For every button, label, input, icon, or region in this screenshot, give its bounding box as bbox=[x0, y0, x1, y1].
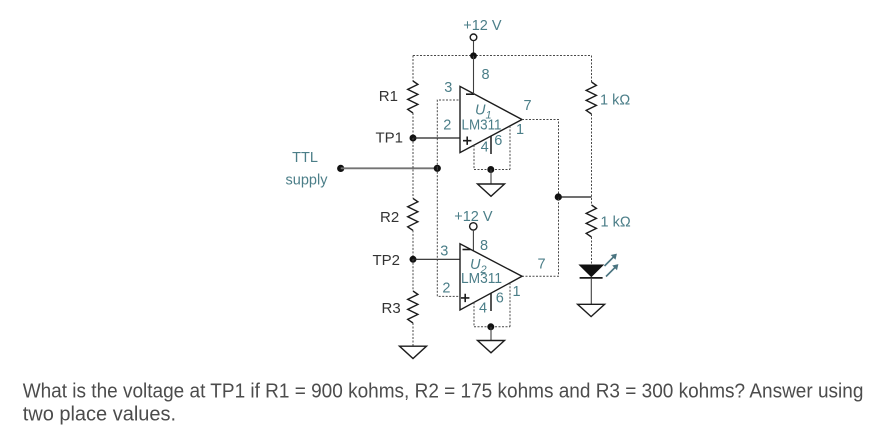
wire: R1 to TP1 bbox=[412, 113, 414, 138]
wire: +12V top rail bbox=[413, 55, 592, 57]
svg-text:R1: R1 bbox=[379, 88, 398, 105]
+12 V terminal circle (U1 rail) bbox=[470, 34, 477, 41]
wire: rail down-left to R1 bbox=[412, 56, 414, 82]
wire: riser from TTL node up to U1 pin 3 bbox=[437, 100, 460, 168]
wire: R3 to ground bbox=[412, 323, 414, 346]
resistor 1 kohm (top) bbox=[586, 82, 596, 114]
svg-text:8: 8 bbox=[482, 67, 490, 83]
op-amp U2 plus sign bbox=[461, 294, 469, 302]
wire: U2 ground stem bbox=[490, 327, 492, 341]
op-amp U2 triangle bbox=[460, 244, 522, 310]
ground (below U2) bbox=[478, 341, 505, 353]
wire: TP2 to U2 pin 3 bbox=[413, 258, 460, 260]
svg-text:8: 8 bbox=[480, 238, 488, 254]
wire: LED to ground bbox=[590, 278, 592, 304]
pin 4 stub (U2) bbox=[490, 293, 492, 311]
svg-text:LM311: LM311 bbox=[462, 118, 502, 134]
LED diode triangle bbox=[580, 265, 603, 277]
wire: TTL riser down to U2 pin 2 bbox=[437, 168, 460, 296]
wire: U1 pin-4 drop bbox=[473, 145, 475, 169]
svg-text:2: 2 bbox=[443, 118, 451, 134]
pin 4 stub (U1) bbox=[490, 136, 492, 154]
wire: terminal to top rail bbox=[473, 41, 475, 56]
wire: U2 pin-4 drop bbox=[473, 302, 475, 326]
svg-text:TP2: TP2 bbox=[373, 252, 401, 269]
LED cathode bar bbox=[580, 277, 603, 279]
wire: TP2 down to R3 bbox=[412, 259, 414, 291]
wire: U2 bottom tie bbox=[474, 326, 510, 328]
LED emission arrow 2 bbox=[606, 264, 618, 276]
op-amp U1 triangle bbox=[460, 86, 522, 152]
resistor R2 bbox=[408, 198, 418, 230]
wire: U1 ground stem bbox=[490, 170, 492, 185]
op-amp U2 minus sign bbox=[463, 249, 471, 251]
wire: R2 to TP2 bbox=[412, 230, 414, 259]
svg-text:3: 3 bbox=[444, 80, 452, 96]
ground (below LED) bbox=[578, 304, 605, 316]
svg-text:6: 6 bbox=[496, 291, 504, 307]
wire: U2 pin-1 drop bbox=[509, 283, 511, 327]
wire: U1 output pin 7 bbox=[522, 120, 559, 198]
wire: U2 pin 8 lead bbox=[472, 230, 474, 252]
wire: junction to resistor chain bbox=[558, 196, 591, 198]
svg-text:R2: R2 bbox=[380, 209, 399, 226]
svg-text:TTL: TTL bbox=[292, 150, 318, 166]
svg-text:7: 7 bbox=[523, 98, 531, 114]
wire: U1 pin-1 drop bbox=[509, 126, 511, 170]
wire: pin 8 lead (U1) bbox=[473, 56, 475, 94]
node: U2 ground junction bbox=[487, 323, 494, 330]
node TP2 bbox=[410, 256, 417, 263]
wire: U2 output pin 7 riser bbox=[522, 197, 559, 276]
+12 V terminal circle (U2) bbox=[470, 223, 477, 230]
svg-text:4: 4 bbox=[481, 140, 489, 156]
svg-text:supply: supply bbox=[286, 173, 329, 189]
wire: bottom 1k to LED bbox=[591, 237, 593, 265]
wire: top 1k to output node bbox=[591, 114, 593, 205]
svg-text:3: 3 bbox=[440, 244, 448, 260]
wire: U1 bottom tie bbox=[474, 169, 510, 171]
svg-text:1: 1 bbox=[516, 122, 524, 138]
node TP1 bbox=[410, 135, 417, 142]
svg-text:LM311: LM311 bbox=[461, 271, 502, 287]
svg-text:1: 1 bbox=[512, 284, 520, 300]
resistor R3 bbox=[408, 291, 418, 323]
svg-text:1 kΩ: 1 kΩ bbox=[601, 215, 631, 231]
svg-text:What is the voltage at TP1 if: What is the voltage at TP1 if R1 = 900 k… bbox=[23, 380, 864, 402]
wire: rail down-right to 1 k resistor bbox=[591, 56, 593, 83]
node: U1 ground junction bbox=[487, 166, 494, 173]
wire: R2 from TP1 down bbox=[412, 138, 414, 198]
resistor R1 bbox=[408, 81, 418, 113]
svg-text:6: 6 bbox=[494, 133, 502, 149]
op-amp U1 minus sign bbox=[466, 93, 474, 95]
svg-text:7: 7 bbox=[537, 257, 545, 273]
svg-text:TP1: TP1 bbox=[376, 130, 404, 147]
svg-text:two place values.: two place values. bbox=[23, 403, 176, 425]
node: rail junction dot bbox=[470, 52, 477, 59]
node: TTL junction at pin-3 riser bbox=[434, 165, 441, 172]
ground (below R3) bbox=[400, 346, 427, 358]
svg-text:+12 V: +12 V bbox=[463, 18, 502, 34]
svg-text:1 kΩ: 1 kΩ bbox=[600, 93, 630, 109]
wire: TTL supply horizontal bbox=[341, 167, 438, 169]
ground (below U1) bbox=[478, 184, 505, 196]
LED emission arrow 1 bbox=[605, 254, 617, 266]
wire: TP1 to U1 pin 2 bbox=[413, 137, 460, 139]
node: TTL supply left terminal bbox=[337, 165, 344, 172]
node: wired-OR output junction bbox=[555, 193, 562, 200]
svg-text:4: 4 bbox=[479, 301, 487, 317]
svg-text:2: 2 bbox=[442, 281, 450, 297]
svg-text:R3: R3 bbox=[382, 300, 401, 317]
op-amp U1 plus sign bbox=[463, 137, 471, 145]
resistor 1 kohm (bottom) bbox=[586, 205, 596, 237]
